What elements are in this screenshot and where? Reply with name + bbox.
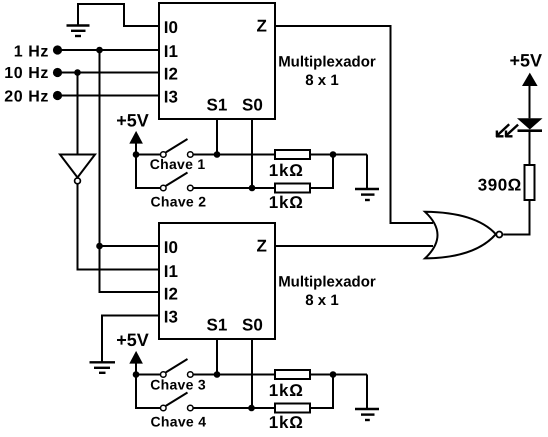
wire 10 Hz to inverter input xyxy=(77,73,79,155)
1 Hz terminal xyxy=(53,45,62,54)
LED emission arrow 2 xyxy=(505,125,518,137)
resistor R3 xyxy=(275,370,310,379)
wire +5V rail to Chave 2 xyxy=(136,142,161,188)
svg-text:Chave 2: Chave 2 xyxy=(151,193,207,209)
wire Chave 3 to R3 xyxy=(194,374,276,376)
svg-text:I0: I0 xyxy=(164,238,178,257)
svg-text:Chave 1: Chave 1 xyxy=(150,156,206,172)
+5V arrow 3 xyxy=(522,73,538,86)
switch Chave 1 xyxy=(161,139,194,157)
svg-text:1kΩ: 1kΩ xyxy=(269,193,304,212)
switch Chave 2 xyxy=(161,173,194,191)
resistor R5 390 Ohm xyxy=(525,165,535,200)
wire Chave 1 to R1 xyxy=(194,154,276,156)
wire 1 Hz down to I2 of U2 xyxy=(100,50,161,292)
wire inverter output to I1 of U2 xyxy=(78,184,161,270)
node S1 U2 junction xyxy=(214,371,221,378)
wire down to ground G3 xyxy=(366,375,368,410)
wire branch to I0 of U2 xyxy=(100,245,161,247)
wire I3 of U2 to ground G4 xyxy=(102,316,160,363)
svg-text:S0: S0 xyxy=(242,316,263,335)
LED emission arrow 1 xyxy=(496,124,509,137)
wire S0 of U1 xyxy=(251,119,253,188)
wire R2 to node xyxy=(310,155,333,189)
svg-text:I2: I2 xyxy=(164,64,178,83)
wire Chave 4 to R4 xyxy=(194,407,276,409)
wire R3 to ground xyxy=(310,374,367,376)
node R3/R4 junction xyxy=(330,371,337,378)
ground G2 xyxy=(355,189,379,200)
wire ground to I0 of U1 xyxy=(78,4,160,26)
ground top-left xyxy=(67,26,90,37)
node +5V to Chave 1 xyxy=(133,151,140,158)
node S0 U1 junction xyxy=(249,185,256,192)
node S1 U1 junction xyxy=(214,151,221,158)
20 Hz terminal xyxy=(53,91,62,100)
wire Chave 2 to R2 xyxy=(194,187,276,189)
svg-text:S1: S1 xyxy=(207,96,228,115)
svg-text:+5V: +5V xyxy=(116,330,149,350)
inverter U3 xyxy=(60,155,95,184)
svg-text:Multiplexador: Multiplexador xyxy=(278,53,376,70)
wire 1 Hz to I1 of U1 xyxy=(58,49,161,51)
wire down to ground G2 xyxy=(366,155,368,190)
wire to Chave 3 xyxy=(136,374,161,376)
svg-text:20 Hz: 20 Hz xyxy=(4,89,49,106)
wire S0 of U2 xyxy=(251,339,253,408)
node junction at I0 of U2 xyxy=(96,243,103,250)
resistor R2 xyxy=(275,184,310,193)
resistor R4 xyxy=(275,404,310,413)
wire R4 to node xyxy=(310,375,333,409)
wire to Chave 1 xyxy=(136,154,161,156)
svg-text:8 x 1: 8 x 1 xyxy=(305,292,338,309)
svg-text:I3: I3 xyxy=(164,307,178,326)
svg-text:S1: S1 xyxy=(207,316,228,335)
svg-text:1 Hz: 1 Hz xyxy=(14,44,49,61)
svg-text:Multiplexador: Multiplexador xyxy=(278,273,376,290)
svg-text:8 x 1: 8 x 1 xyxy=(305,72,338,89)
svg-text:I0: I0 xyxy=(164,18,178,37)
svg-text:1kΩ: 1kΩ xyxy=(269,161,304,180)
multiplexer U2 xyxy=(159,223,275,339)
svg-text:Chave 3: Chave 3 xyxy=(150,377,206,393)
svg-text:390Ω: 390Ω xyxy=(478,175,522,194)
node junction 1 Hz branch xyxy=(96,47,103,54)
svg-text:1kΩ: 1kΩ xyxy=(269,381,304,400)
multiplexer U1 xyxy=(159,3,275,119)
switch Chave 3 xyxy=(161,359,194,377)
svg-text:Chave 4: Chave 4 xyxy=(151,413,207,429)
10 Hz terminal xyxy=(53,68,62,77)
wire LED to +5V xyxy=(529,85,531,118)
svg-text:1kΩ: 1kΩ xyxy=(269,413,304,432)
svg-text:+5V: +5V xyxy=(116,110,149,130)
ground G4 xyxy=(90,362,116,373)
svg-text:I1: I1 xyxy=(164,42,178,61)
svg-text:I1: I1 xyxy=(164,262,178,281)
wire 20 Hz to I3 of U1 xyxy=(58,95,161,97)
node R1/R2 junction xyxy=(330,151,337,158)
wire R1 to ground xyxy=(310,154,367,156)
svg-text:Z: Z xyxy=(257,237,267,256)
resistor R1 xyxy=(275,150,310,159)
wire R5 to LED xyxy=(529,132,531,166)
ground G3 xyxy=(355,409,379,420)
wire NOR output to R5 xyxy=(503,200,529,235)
node junction 10 Hz branch xyxy=(74,69,81,76)
node +5V to Chave 3 xyxy=(133,371,140,378)
svg-text:+5V: +5V xyxy=(510,51,543,71)
+5V arrow 2 xyxy=(129,351,143,364)
LED D1 xyxy=(517,118,543,130)
wire S1 of U2 xyxy=(216,339,218,375)
svg-text:S0: S0 xyxy=(242,96,263,115)
wire Z of U1 to NOR input 1 xyxy=(275,26,433,223)
svg-text:I3: I3 xyxy=(164,87,178,106)
svg-text:I2: I2 xyxy=(164,284,178,303)
+5V arrow 1 xyxy=(129,131,143,144)
node S0 U2 junction xyxy=(248,405,255,412)
svg-text:10 Hz: 10 Hz xyxy=(4,65,49,82)
svg-text:Z: Z xyxy=(257,17,267,36)
wire Z of U2 to NOR input 2 xyxy=(275,245,433,247)
wire +5V rail to Chave 4 xyxy=(136,362,161,408)
wire S1 of U1 xyxy=(216,119,218,155)
NOR gate U4 xyxy=(425,212,502,259)
switch Chave 4 xyxy=(161,393,194,411)
wire 10 Hz to I2 of U1 xyxy=(58,72,161,74)
